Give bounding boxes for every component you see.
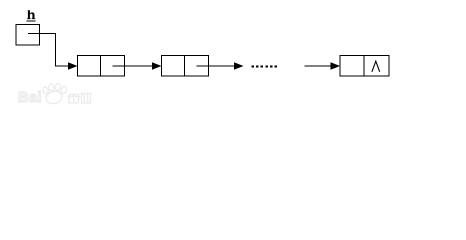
node 2 divider <box>184 56 186 77</box>
wire ellipsis to last node <box>305 65 332 67</box>
svg-text:Bai: Bai <box>18 90 42 106</box>
wire node 2 toward ellipsis <box>197 65 236 67</box>
ellipsis dots <box>252 65 278 67</box>
node 1 divider <box>100 56 102 77</box>
last node box <box>340 56 389 77</box>
watermark Baidu Baike logo <box>18 83 91 106</box>
wire from h box to first node <box>28 34 68 67</box>
arrowhead into last node <box>331 62 341 69</box>
arrowhead into node 2 <box>152 62 162 69</box>
wire node 1 to node 2 <box>113 65 153 67</box>
underline of h <box>27 20 36 21</box>
arrowhead into node 1 <box>68 62 78 69</box>
last node divider <box>363 56 365 77</box>
node 2 box <box>162 56 209 77</box>
arrowhead toward ellipsis <box>234 62 244 69</box>
head pointer box h <box>16 25 40 46</box>
node 1 box <box>78 56 125 77</box>
label h <box>27 10 35 19</box>
null marker in last node <box>372 61 380 72</box>
